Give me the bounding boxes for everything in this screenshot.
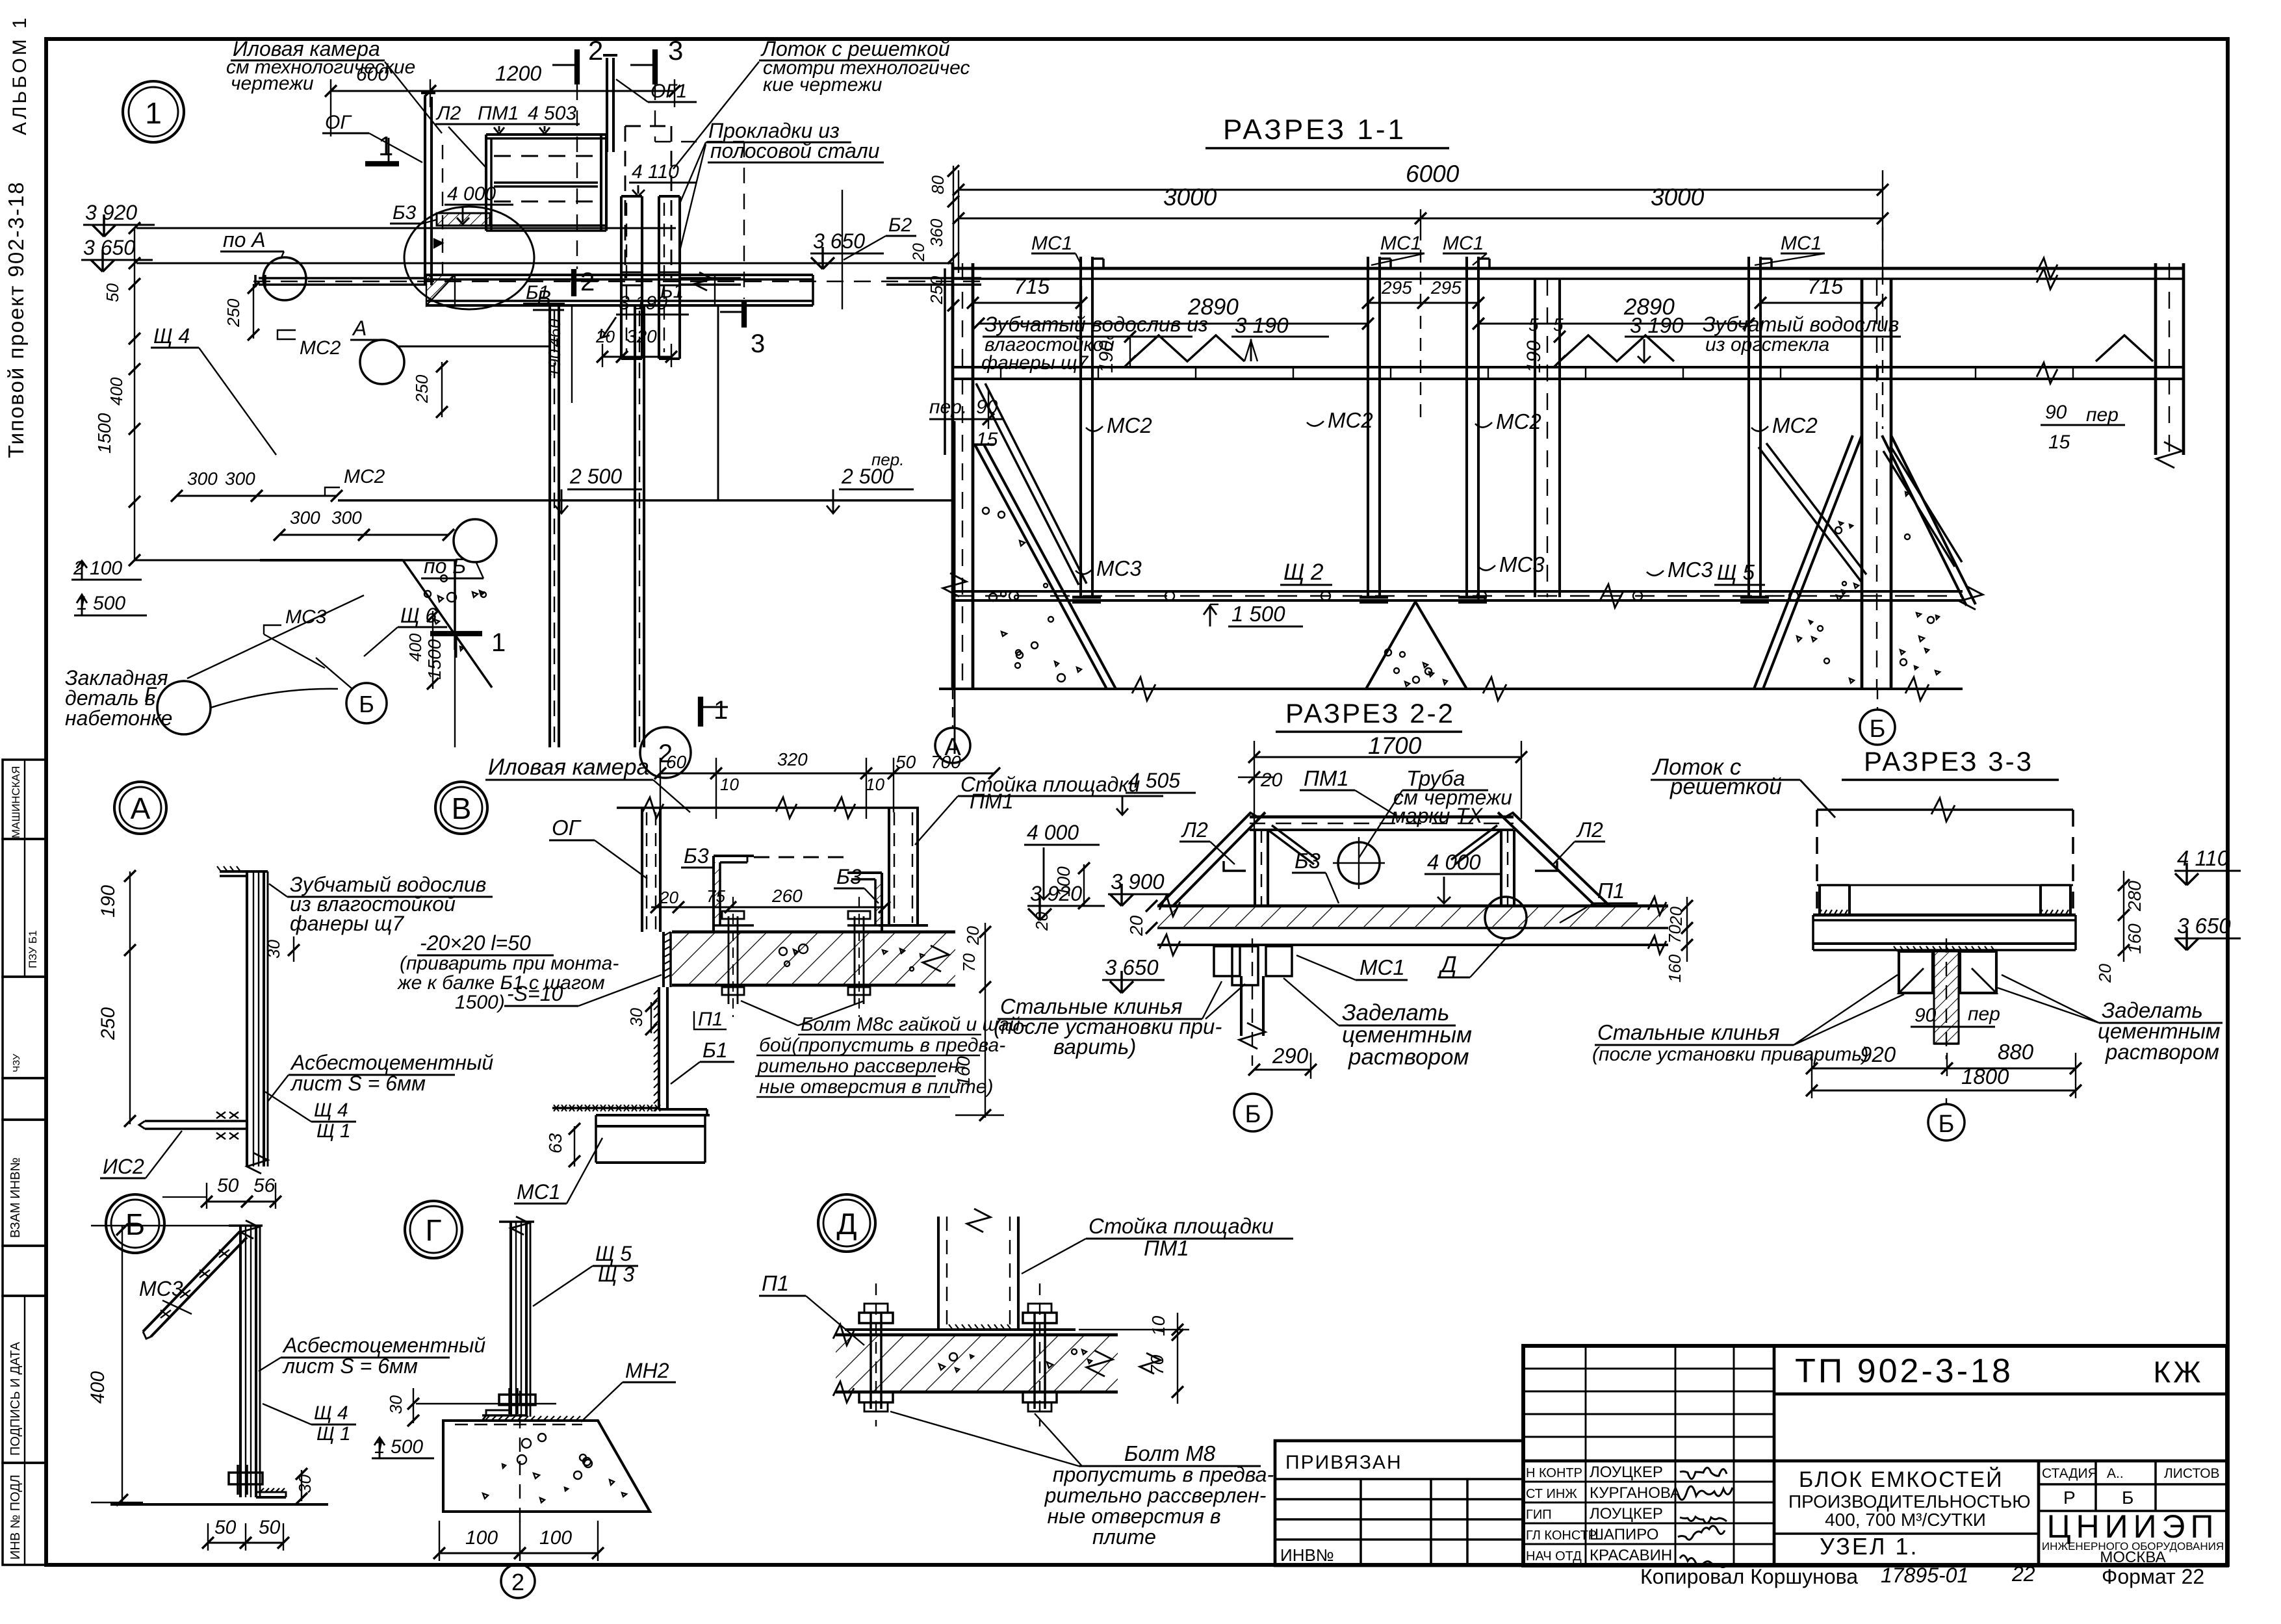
svg-text:Щ 1: Щ 1 (316, 1120, 351, 1142)
svg-text:МС2: МС2 (1107, 413, 1152, 437)
svg-text:920: 920 (1860, 1042, 1896, 1066)
svg-text:В: В (452, 792, 472, 825)
svg-text:20: 20 (1126, 915, 1146, 936)
svg-text:Б3: Б3 (836, 865, 862, 888)
svg-text:5: 5 (1528, 315, 1539, 335)
svg-text:2 100: 2 100 (73, 558, 122, 579)
svg-text:160: 160 (953, 1056, 973, 1087)
svg-text:Д: Д (836, 1207, 857, 1241)
svg-text:20: 20 (963, 926, 983, 946)
svg-text:190: 190 (545, 349, 564, 378)
svg-text:КЖ: КЖ (2153, 1355, 2203, 1389)
svg-text:МС2: МС2 (1772, 413, 1818, 437)
svg-text:250: 250 (97, 1007, 119, 1040)
svg-text:400: 400 (87, 1371, 109, 1404)
svg-text:(после установки приварить): (после установки приварить) (1592, 1044, 1868, 1065)
svg-text:ИНВ № ПОДЛ: ИНВ № ПОДЛ (8, 1475, 23, 1560)
svg-text:6000: 6000 (1406, 161, 1460, 187)
svg-text:МС1: МС1 (1380, 233, 1421, 254)
svg-text:15: 15 (2048, 432, 2070, 453)
svg-text:300: 300 (290, 508, 320, 528)
svg-text:30: 30 (626, 1008, 646, 1027)
svg-text:БЛОК ЕМКОСТЕЙ: БЛОК ЕМКОСТЕЙ (1799, 1467, 2004, 1492)
svg-text:4 110: 4 110 (632, 161, 679, 183)
svg-text:30: 30 (386, 1395, 406, 1414)
svg-text:МН2: МН2 (625, 1359, 669, 1382)
svg-text:20: 20 (1032, 912, 1051, 931)
svg-text:КУРГАНОВА: КУРГАНОВА (1590, 1484, 1681, 1502)
svg-text:МС1: МС1 (1360, 955, 1405, 979)
svg-text:2: 2 (588, 35, 603, 66)
svg-text:Болт М8: Болт М8 (1124, 1441, 1216, 1465)
svg-text:250: 250 (927, 276, 946, 305)
svg-text:ЛИСТОВ: ЛИСТОВ (2164, 1466, 2220, 1481)
svg-text:715: 715 (1807, 274, 1844, 298)
svg-text:ИНВ№: ИНВ№ (1280, 1545, 1334, 1565)
svg-text:МС1: МС1 (1443, 233, 1484, 254)
svg-text:600: 600 (356, 64, 389, 85)
svg-text:3 650: 3 650 (1105, 955, 1159, 979)
svg-text:295: 295 (1381, 277, 1412, 298)
svg-text:бой(пропустить в предва-: бой(пропустить в предва- (759, 1035, 1005, 1056)
svg-text:МС1: МС1 (517, 1180, 561, 1204)
svg-text:3 920: 3 920 (1030, 882, 1082, 905)
svg-text:2 500: 2 500 (569, 465, 622, 488)
svg-text:ПМ1: ПМ1 (970, 790, 1014, 813)
svg-text:пер.: пер. (929, 396, 967, 418)
svg-text:300: 300 (225, 469, 255, 489)
svg-text:СТАДИЯ: СТАДИЯ (2042, 1466, 2098, 1481)
svg-text:А..: А.. (2107, 1466, 2124, 1481)
svg-text:4 000: 4 000 (1027, 821, 1079, 844)
svg-text:ГИП: ГИП (1526, 1508, 1552, 1522)
svg-text:ВЗАМ ИНВ№: ВЗАМ ИНВ№ (8, 1157, 23, 1238)
svg-text:П1: П1 (698, 1009, 723, 1030)
svg-text:90: 90 (2045, 402, 2067, 423)
svg-text:300: 300 (331, 508, 362, 528)
svg-text:700: 700 (931, 752, 961, 772)
svg-text:3 190: 3 190 (1630, 313, 1684, 337)
svg-text:РАЗРЕЗ 2-2: РАЗРЕЗ 2-2 (1285, 698, 1455, 728)
svg-text:Асбестоцементный: Асбестоцементный (290, 1051, 493, 1074)
svg-text:4 000: 4 000 (447, 183, 496, 205)
svg-text:20: 20 (595, 327, 615, 346)
svg-text:1 500: 1 500 (1231, 602, 1285, 626)
svg-text:МС2: МС2 (1496, 409, 1541, 433)
svg-text:190: 190 (97, 885, 119, 918)
svg-text:ШАПИРО: ШАПИРО (1590, 1526, 1658, 1543)
svg-text:3: 3 (668, 35, 683, 66)
svg-text:Б2: Б2 (888, 214, 912, 236)
svg-text:МОСКВА: МОСКВА (2100, 1549, 2165, 1566)
svg-text:СТ ИНЖ: СТ ИНЖ (1526, 1487, 1577, 1501)
svg-text:ПРОИЗВОДИТЕЛЬНОСТЬЮ: ПРОИЗВОДИТЕЛЬНОСТЬЮ (1788, 1491, 2031, 1512)
svg-text:Д: Д (1438, 952, 1457, 977)
svg-text:набетонке: набетонке (65, 706, 172, 730)
svg-text:280: 280 (2124, 881, 2145, 912)
svg-text:ЧЗУ: ЧЗУ (11, 1053, 22, 1072)
svg-text:Л2: Л2 (1181, 818, 1208, 842)
svg-text:250: 250 (224, 298, 243, 328)
svg-text:400, 700 М³/СУТКИ: 400, 700 М³/СУТКИ (1825, 1510, 1986, 1530)
svg-text:ПЗУ Б1: ПЗУ Б1 (27, 931, 39, 968)
svg-text:Щ 4: Щ 4 (314, 1100, 348, 1121)
svg-text:160: 160 (1665, 954, 1684, 983)
svg-text:МАШИНСКАЯ: МАШИНСКАЯ (10, 766, 22, 838)
svg-text:Б: Б (1870, 715, 1886, 743)
svg-text:1: 1 (714, 696, 728, 725)
svg-text:20: 20 (2095, 964, 2115, 983)
svg-text:МС3: МС3 (1668, 558, 1713, 582)
svg-text:4 110: 4 110 (2177, 846, 2230, 870)
svg-text:раствором: раствором (1348, 1044, 1469, 1070)
svg-text:50: 50 (259, 1517, 281, 1538)
svg-text:4 000: 4 000 (1427, 850, 1481, 874)
svg-text:80: 80 (928, 175, 947, 194)
svg-text:3: 3 (751, 329, 765, 358)
svg-text:МС2: МС2 (1328, 408, 1373, 432)
svg-text:50: 50 (103, 283, 122, 302)
svg-text:РАЗРЕЗ 1-1: РАЗРЕЗ 1-1 (1223, 114, 1406, 146)
svg-text:Зубчатый водослив: Зубчатый водослив (1703, 313, 1899, 336)
svg-text:320: 320 (777, 749, 808, 769)
svg-text:5: 5 (1553, 315, 1564, 335)
svg-text:ОГ: ОГ (325, 112, 352, 133)
svg-text:Б3: Б3 (1295, 849, 1321, 873)
svg-text:Г: Г (426, 1213, 442, 1247)
svg-text:Асбестоцементный: Асбестоцементный (282, 1334, 485, 1357)
svg-text:880: 880 (1998, 1040, 2034, 1064)
svg-text:460: 460 (545, 318, 564, 347)
svg-text:Копировал Коршунова: Копировал Коршунова (1640, 1565, 1858, 1588)
svg-text:Иловая камера: Иловая камера (488, 754, 649, 780)
svg-text:63: 63 (545, 1133, 565, 1154)
svg-text:МС2: МС2 (300, 337, 341, 359)
svg-text:РАЗРЕЗ 3-3: РАЗРЕЗ 3-3 (1864, 746, 2033, 777)
svg-text:2: 2 (511, 1569, 524, 1595)
svg-text:ОГ1: ОГ1 (651, 81, 687, 102)
svg-text:МС3: МС3 (1499, 552, 1545, 576)
svg-text:Л2: Л2 (1576, 818, 1603, 842)
svg-text:260: 260 (771, 886, 803, 906)
svg-text:чертежи: чертежи (231, 73, 314, 94)
svg-text:раствором: раствором (2105, 1040, 2219, 1064)
svg-text:Зубчатый водослив из: Зубчатый водослив из (985, 313, 1208, 336)
svg-text:3000: 3000 (1651, 184, 1705, 211)
svg-text:Б: Б (2122, 1488, 2133, 1508)
svg-text:Р: Р (2063, 1488, 2076, 1508)
svg-text:Стойка площадки: Стойка площадки (1089, 1214, 1274, 1238)
svg-text:Щ 4: Щ 4 (314, 1402, 348, 1424)
svg-text:ЦНИИЭП: ЦНИИЭП (2047, 1508, 2219, 1545)
svg-text:Стальные клинья: Стальные клинья (1597, 1020, 1780, 1044)
svg-text:ПМ1: ПМ1 (1304, 766, 1349, 790)
svg-text:75: 75 (706, 886, 725, 906)
svg-text:ПМ1: ПМ1 (478, 103, 519, 124)
svg-text:Л2: Л2 (435, 103, 461, 124)
svg-text:-20×20 l=50: -20×20 l=50 (420, 931, 531, 955)
svg-text:360: 360 (927, 218, 946, 247)
svg-text:22: 22 (2011, 1562, 2035, 1586)
svg-text:из оргстекла: из оргстекла (1705, 334, 1829, 355)
svg-text:60: 60 (666, 752, 687, 772)
svg-text:1 500: 1 500 (77, 593, 125, 614)
svg-text:пер: пер (1968, 1003, 2000, 1025)
svg-text:МС1: МС1 (1781, 233, 1822, 254)
svg-text:ГЛ КОНСТР: ГЛ КОНСТР (1526, 1528, 1597, 1543)
svg-text:пер: пер (2086, 404, 2119, 426)
svg-text:3000: 3000 (1163, 184, 1217, 211)
svg-text:фанеры щ7: фанеры щ7 (290, 912, 404, 935)
svg-text:1700: 1700 (1368, 732, 1422, 759)
svg-text:3 190: 3 190 (1235, 313, 1289, 337)
svg-text:400: 400 (406, 633, 425, 662)
svg-text:АЛЬБОМ 1: АЛЬБОМ 1 (9, 15, 31, 135)
svg-text:решеткой: решеткой (1669, 774, 1782, 799)
svg-text:400: 400 (107, 377, 126, 406)
svg-text:300: 300 (187, 469, 218, 489)
svg-text:Б: Б (1245, 1101, 1261, 1128)
svg-text:295: 295 (1430, 277, 1462, 298)
svg-text:17895-01: 17895-01 (1881, 1564, 1968, 1587)
svg-text:фанеры щ7: фанеры щ7 (981, 352, 1089, 374)
svg-text:20: 20 (1260, 769, 1283, 791)
svg-text:ЛОУЦКЕР: ЛОУЦКЕР (1590, 1505, 1663, 1523)
svg-text:50: 50 (217, 1175, 239, 1196)
svg-text:56: 56 (253, 1175, 276, 1196)
svg-text:715: 715 (1014, 274, 1050, 298)
svg-text:ИС2: ИС2 (103, 1155, 144, 1178)
svg-text:Щ 1: Щ 1 (316, 1423, 351, 1445)
svg-text:Типовой проект 902-3-18: Типовой проект 902-3-18 (4, 181, 28, 458)
svg-text:1500): 1500) (455, 992, 505, 1013)
svg-text:Б3: Б3 (393, 202, 417, 224)
svg-text:10: 10 (720, 775, 739, 794)
svg-text:50: 50 (214, 1517, 237, 1538)
svg-text:КРАСАВИН: КРАСАВИН (1590, 1547, 1672, 1564)
svg-text:Б3: Б3 (684, 844, 709, 868)
svg-text:10: 10 (1148, 1315, 1168, 1336)
svg-text:МС1: МС1 (1031, 233, 1072, 254)
svg-text:П1: П1 (1597, 879, 1625, 903)
svg-text:ные отверстия в: ные отверстия в (1047, 1504, 1220, 1528)
svg-text:1500: 1500 (94, 413, 114, 454)
svg-text:Н КОНТР: Н КОНТР (1526, 1466, 1582, 1480)
svg-text:290: 290 (1272, 1044, 1309, 1068)
svg-text:Б1: Б1 (702, 1038, 728, 1062)
svg-text:полосовой стали: полосовой стали (710, 139, 880, 162)
svg-text:УЗЕЛ 1.: УЗЕЛ 1. (1820, 1533, 1918, 1560)
svg-text:-S=10: -S=10 (507, 982, 563, 1005)
svg-text:ТП 902-3-18: ТП 902-3-18 (1795, 1352, 2013, 1390)
svg-text:30: 30 (264, 940, 283, 959)
svg-text:Болт М8с гайкой и шай-: Болт М8с гайкой и шай- (801, 1014, 1027, 1035)
svg-text:МС3: МС3 (1096, 556, 1142, 580)
svg-text:10: 10 (866, 775, 884, 794)
svg-text:100: 100 (539, 1527, 572, 1549)
svg-text:Щ 4: Щ 4 (153, 324, 190, 348)
svg-text:3 900: 3 900 (1111, 870, 1165, 894)
svg-text:20: 20 (659, 888, 678, 907)
svg-text:МС3: МС3 (285, 606, 327, 628)
svg-text:Б: Б (359, 691, 374, 717)
svg-text:ПМ1: ПМ1 (1144, 1236, 1189, 1260)
svg-text:ПОДПИСЬ И ДАТА: ПОДПИСЬ И ДАТА (8, 1341, 23, 1456)
svg-text:250: 250 (412, 374, 432, 404)
svg-text:1500: 1500 (424, 639, 445, 680)
svg-text:3 650: 3 650 (83, 236, 135, 259)
svg-text:3 650: 3 650 (813, 229, 865, 253)
svg-text:3 920: 3 920 (85, 201, 137, 224)
svg-text:4 503: 4 503 (528, 103, 576, 124)
svg-text:90: 90 (1914, 1005, 1937, 1026)
svg-text:ЛОУЦКЕР: ЛОУЦКЕР (1590, 1463, 1663, 1481)
svg-text:П1: П1 (762, 1271, 789, 1295)
svg-text:НАЧ ОТД: НАЧ ОТД (1526, 1549, 1582, 1564)
svg-text:ОГ: ОГ (552, 816, 582, 840)
svg-text:А: А (131, 792, 151, 825)
svg-text:70: 70 (959, 953, 979, 972)
svg-text:МС3: МС3 (139, 1277, 183, 1300)
svg-text:же к балке Б1 с шагом: же к балке Б1 с шагом (396, 972, 605, 994)
svg-text:плите: плите (1092, 1525, 1156, 1549)
svg-text:Щ 5: Щ 5 (1717, 560, 1755, 584)
svg-text:4 505: 4 505 (1128, 769, 1180, 792)
svg-text:100: 100 (465, 1527, 498, 1549)
svg-text:Щ 2: Щ 2 (1283, 560, 1324, 585)
svg-text:варить): варить) (1053, 1035, 1136, 1059)
svg-text:по Б: по Б (424, 554, 466, 578)
svg-text:рительно рассверлен-: рительно рассверлен- (757, 1055, 965, 1077)
svg-text:1200: 1200 (495, 62, 541, 85)
svg-text:МС2: МС2 (344, 466, 385, 487)
svg-text:Формат 22: Формат 22 (2102, 1565, 2204, 1588)
svg-text:А: А (352, 316, 367, 340)
svg-text:1800: 1800 (1961, 1064, 2009, 1089)
svg-text:Щ 6: Щ 6 (400, 604, 437, 627)
svg-text:рительно рассверлен-: рительно рассверлен- (1044, 1484, 1267, 1507)
svg-text:15: 15 (976, 429, 998, 450)
svg-text:160: 160 (2124, 923, 2145, 954)
svg-text:3 650: 3 650 (2177, 914, 2231, 938)
svg-text:Б: Б (1939, 1111, 1955, 1138)
svg-text:кие чертежи: кие чертежи (763, 74, 883, 96)
svg-text:20: 20 (910, 243, 928, 262)
svg-text:ПРИВЯЗАН: ПРИВЯЗАН (1285, 1452, 1402, 1473)
svg-text:1: 1 (145, 96, 162, 130)
svg-text:по А: по А (223, 228, 266, 251)
svg-text:Щ 5: Щ 5 (595, 1242, 632, 1265)
svg-text:1: 1 (491, 628, 506, 657)
svg-text:пер.: пер. (871, 450, 904, 469)
